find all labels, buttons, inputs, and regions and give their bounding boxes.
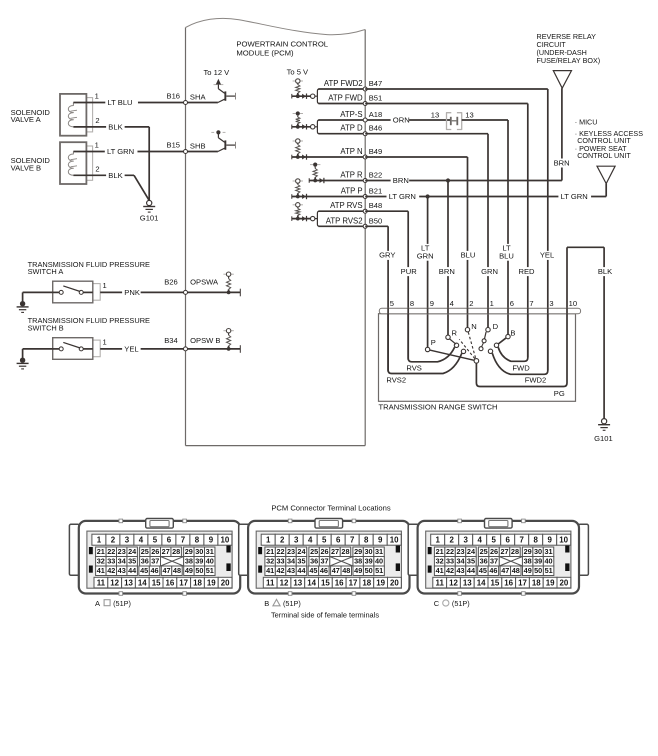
svg-text:27: 27 [162, 547, 170, 556]
svg-text:37: 37 [151, 557, 159, 566]
svg-text:11: 11 [266, 578, 275, 587]
svg-text:3: 3 [125, 536, 130, 545]
svg-text:LT GRN: LT GRN [561, 192, 588, 201]
svg-text:43: 43 [456, 566, 464, 575]
svg-text:14: 14 [138, 578, 147, 587]
svg-text:YEL: YEL [124, 345, 138, 354]
svg-text:8: 8 [410, 299, 414, 308]
svg-text:41: 41 [436, 566, 444, 575]
solenoid valve B connector bracket [86, 146, 92, 180]
range switch pin 10 stub [566, 308, 568, 314]
wire GRY ATP RVS2 B50 to range switch pin 5 [365, 226, 388, 371]
svg-text:6: 6 [506, 536, 511, 545]
svg-text:15: 15 [491, 578, 500, 587]
svg-text:PUR: PUR [401, 267, 418, 276]
RVS path pin 8 to rotor [406, 314, 458, 373]
svg-text:49: 49 [524, 566, 532, 575]
svg-text:RVS2: RVS2 [386, 375, 406, 384]
svg-text:MODULE (PCM): MODULE (PCM) [236, 49, 294, 58]
svg-text:ATP R: ATP R [340, 171, 363, 180]
svg-text:29: 29 [354, 547, 362, 556]
svg-text:2: 2 [95, 116, 99, 125]
range switch contact B [506, 329, 516, 339]
svg-text:VALVE B: VALVE B [11, 163, 42, 172]
solenoid valve B [60, 142, 86, 184]
svg-text:SWITCH B: SWITCH B [28, 323, 64, 332]
svg-text:B26: B26 [164, 278, 178, 287]
svg-text:LT GRN: LT GRN [389, 192, 416, 201]
svg-text:44: 44 [128, 566, 137, 575]
svg-text:47: 47 [162, 566, 170, 575]
svg-text:9: 9 [430, 299, 434, 308]
FWD path pin 7 to rotor [494, 314, 530, 373]
PCM signal name labels [324, 79, 363, 225]
svg-text:1: 1 [97, 536, 102, 545]
svg-text:19: 19 [207, 578, 216, 587]
svg-text:35: 35 [297, 557, 305, 566]
svg-text:5: 5 [492, 536, 497, 545]
valve A pin 1 [95, 92, 99, 101]
svg-text:24: 24 [467, 547, 476, 556]
svg-text:12: 12 [449, 578, 458, 587]
svg-text:15: 15 [321, 578, 330, 587]
svg-text:39: 39 [365, 557, 373, 566]
svg-text:40: 40 [545, 557, 553, 566]
svg-text:D: D [493, 322, 499, 331]
wire RED ATP FWD B51 to range switch pin 7 [365, 104, 528, 358]
svg-text:R: R [452, 329, 458, 338]
svg-text:47: 47 [332, 566, 340, 575]
svg-text:To 5 V: To 5 V [287, 67, 309, 76]
svg-text:(51P): (51P) [283, 599, 301, 608]
svg-text:10: 10 [559, 536, 568, 545]
svg-text:4: 4 [308, 536, 313, 545]
label To 5 V [287, 67, 309, 76]
resistor pull-up group ATP R [309, 163, 324, 184]
svg-text:25: 25 [141, 547, 149, 556]
bracket ATP-S/ATP D pair [311, 120, 391, 134]
range switch pin 7 stub [527, 308, 529, 314]
wiper dashed N to common [468, 332, 475, 358]
MICU keyless access power seat connector triangle [597, 166, 615, 183]
svg-text:28: 28 [172, 547, 180, 556]
wire OPSWA inside PCM [184, 289, 241, 297]
terminal B15 label [167, 141, 181, 150]
svg-text:PNK: PNK [124, 288, 140, 297]
svg-text:15: 15 [152, 578, 161, 587]
wiper arm P to common [430, 350, 475, 360]
svg-text:31: 31 [544, 547, 552, 556]
svg-text:26: 26 [321, 547, 329, 556]
svg-text:B: B [510, 329, 515, 338]
svg-text:20: 20 [560, 578, 569, 587]
svg-text:1: 1 [103, 337, 107, 346]
svg-text:8: 8 [195, 536, 200, 545]
svg-text:43: 43 [287, 566, 295, 575]
svg-text:18: 18 [362, 578, 371, 587]
svg-text:16: 16 [335, 578, 344, 587]
wiper dashed common to R side [459, 339, 475, 358]
wire BLK valve B pin2 to G101 [73, 171, 149, 201]
svg-text:22: 22 [107, 547, 115, 556]
svg-text:B15: B15 [167, 141, 181, 150]
svg-text:ATP P: ATP P [341, 187, 363, 196]
svg-text:Terminal side of female termin: Terminal side of female terminals [271, 611, 379, 620]
svg-text:1: 1 [95, 92, 99, 101]
resistor pull-up group ATP P [292, 179, 311, 199]
PCM connector C 51P [408, 519, 588, 609]
svg-text:7: 7 [520, 536, 525, 545]
range switch contact P [425, 338, 435, 351]
svg-text:20: 20 [221, 578, 230, 587]
svg-text:33: 33 [107, 557, 115, 566]
RVS2 path pin 5 to rotor [386, 314, 465, 385]
svg-text:RED: RED [518, 267, 535, 276]
svg-text:46: 46 [489, 566, 497, 575]
range switch pin 6 stub [507, 308, 509, 314]
svg-text:BLK: BLK [108, 123, 122, 132]
svg-text:31: 31 [206, 547, 214, 556]
svg-text:6: 6 [510, 299, 514, 308]
svg-text:48: 48 [512, 566, 520, 575]
svg-text:GRY: GRY [379, 251, 395, 260]
svg-text:45: 45 [140, 566, 148, 575]
svg-text:B51: B51 [369, 94, 383, 103]
svg-text:N: N [471, 322, 476, 331]
svg-text:37: 37 [321, 557, 329, 566]
svg-text:ATP N: ATP N [340, 147, 362, 156]
svg-text:PCM Connector Terminal Locatio: PCM Connector Terminal Locations [271, 504, 391, 513]
svg-text:25: 25 [310, 547, 318, 556]
svg-text:PG: PG [554, 389, 565, 398]
svg-text:26: 26 [151, 547, 159, 556]
svg-text:33: 33 [277, 557, 285, 566]
svg-text:34: 34 [456, 557, 465, 566]
svg-text:To 12 V: To 12 V [204, 68, 231, 77]
svg-text:FUSE/RELAY BOX): FUSE/RELAY BOX) [537, 56, 601, 65]
svg-text:43: 43 [118, 566, 126, 575]
svg-text:RVS: RVS [406, 363, 421, 372]
svg-text:11: 11 [436, 578, 445, 587]
svg-text:BLK: BLK [598, 267, 612, 276]
svg-text:19: 19 [376, 578, 385, 587]
wire PNK switch A to PCM B26 [100, 288, 185, 297]
svg-text:24: 24 [297, 547, 306, 556]
svg-text:6: 6 [336, 536, 341, 545]
svg-text:SHA: SHA [190, 92, 207, 101]
svg-text:25: 25 [480, 547, 488, 556]
svg-text:ATP RVS: ATP RVS [330, 201, 363, 210]
label REVERSE RELAY CIRCUIT [537, 32, 601, 65]
FWD2 path pin 3 to rotor [488, 314, 548, 385]
svg-text:22: 22 [277, 547, 285, 556]
label SHB [190, 141, 206, 150]
svg-text:B16: B16 [167, 92, 181, 101]
svg-text:1: 1 [490, 299, 494, 308]
svg-text:FWD: FWD [512, 364, 530, 373]
svg-text:B47: B47 [369, 79, 383, 88]
svg-text:5: 5 [390, 299, 394, 308]
svg-text:3: 3 [464, 536, 469, 545]
reverse relay circuit connector triangle [553, 71, 571, 89]
terminal B26 label [164, 278, 178, 287]
wire ORN ATP-S A18 to in-line connector [390, 116, 451, 125]
svg-text:20: 20 [390, 578, 399, 587]
svg-text:38: 38 [354, 557, 362, 566]
wire LT BLU in-line connector to range switch pin 6 [462, 120, 508, 334]
svg-text:45: 45 [309, 566, 317, 575]
svg-text:2: 2 [95, 164, 99, 173]
svg-text:28: 28 [341, 547, 349, 556]
wire YEL ATP FWD2 B47 to range switch pin 3 [365, 89, 548, 370]
svg-text:12: 12 [280, 578, 289, 587]
range switch pin 8 stub [407, 308, 409, 314]
solenoid valve B coil L2 [68, 152, 77, 176]
transmission fluid pressure switch B bracket [93, 340, 100, 357]
svg-text:30: 30 [534, 547, 542, 556]
svg-text:13: 13 [465, 111, 473, 120]
solenoid valve A coil L1 [68, 103, 77, 127]
svg-text:8: 8 [364, 536, 369, 545]
svg-text:42: 42 [107, 566, 115, 575]
bracket ATP RVS/ATP RVS2 pair [311, 211, 366, 226]
label Terminal side of female terminals [271, 611, 379, 620]
chassis ground switch B [17, 349, 53, 369]
wire LT GRN valve B pin1 to PCM B15 [73, 147, 185, 156]
powertrain control module PCM box [186, 18, 366, 445]
svg-text:45: 45 [479, 566, 487, 575]
svg-text:49: 49 [354, 566, 362, 575]
svg-text:40: 40 [375, 557, 383, 566]
svg-text:4: 4 [450, 299, 454, 308]
svg-text:42: 42 [446, 566, 454, 575]
svg-text:B46: B46 [369, 124, 383, 133]
wire YEL switch B to PCM B34 [100, 345, 185, 354]
svg-text:14: 14 [477, 578, 486, 587]
svg-text:B49: B49 [369, 147, 383, 156]
svg-text:BRN: BRN [393, 176, 409, 185]
resistor pull-up group ATP RVS/ATP RVS2 [292, 203, 311, 222]
svg-text:21: 21 [266, 547, 274, 556]
svg-text:36: 36 [141, 557, 149, 566]
svg-text:48: 48 [342, 566, 350, 575]
resistor pull-up group ATP FWD2/ATP FWD [292, 79, 311, 99]
svg-text:1: 1 [266, 536, 271, 545]
svg-text:21: 21 [436, 547, 444, 556]
PCM right edge connector circles [363, 87, 367, 228]
svg-text:B22: B22 [369, 171, 383, 180]
resistor pull-up group ATP N [292, 139, 311, 160]
label OPSWA [190, 278, 219, 287]
label SOLENOID VALVE A [11, 108, 51, 124]
svg-text:C: C [434, 599, 440, 608]
svg-text:50: 50 [534, 566, 542, 575]
svg-text:28: 28 [511, 547, 519, 556]
range switch pin 2 stub [467, 308, 469, 314]
wire color labels at range switch [379, 244, 614, 276]
svg-text:47: 47 [501, 566, 509, 575]
svg-text:ATP-S: ATP-S [340, 110, 362, 119]
svg-text:· MICU: · MICU [575, 118, 598, 127]
svg-text:B34: B34 [164, 336, 178, 345]
in-line connector H [447, 113, 462, 130]
label TRANSMISSION FLUID PRESSURE SWITCH B [28, 316, 150, 332]
wire ATP N row [311, 156, 366, 158]
svg-text:13: 13 [431, 111, 439, 120]
range switch contact N [465, 322, 476, 332]
svg-text:10: 10 [390, 536, 399, 545]
ground G101 right [594, 419, 613, 443]
svg-text:12: 12 [110, 578, 119, 587]
svg-text:1: 1 [436, 536, 441, 545]
svg-text:41: 41 [266, 566, 274, 575]
svg-text:SHB: SHB [190, 141, 206, 150]
svg-text:38: 38 [185, 557, 193, 566]
svg-text:9: 9 [209, 536, 214, 545]
svg-text:LT BLU: LT BLU [108, 98, 133, 107]
svg-text:16: 16 [504, 578, 513, 587]
solenoid valve A [60, 94, 86, 136]
transmission fluid pressure switch A bracket [93, 284, 100, 301]
svg-text:YEL: YEL [540, 251, 554, 260]
svg-text:48: 48 [173, 566, 181, 575]
svg-text:10: 10 [569, 299, 577, 308]
svg-text:51: 51 [545, 566, 553, 575]
wire SHB inside PCM [184, 150, 218, 154]
svg-text:27: 27 [500, 547, 508, 556]
wire ATP R row [311, 180, 366, 182]
svg-text:39: 39 [534, 557, 542, 566]
svg-text:21: 21 [97, 547, 105, 556]
svg-text:(51P): (51P) [113, 599, 131, 608]
svg-text:9: 9 [548, 536, 553, 545]
wire PUR ATP RVS B48 to range switch pin 8 [365, 211, 408, 360]
svg-text:7: 7 [529, 299, 533, 308]
svg-text:23: 23 [118, 547, 126, 556]
svg-text:ATP D: ATP D [340, 124, 363, 133]
svg-text:51: 51 [206, 566, 214, 575]
solenoid valve A connector bracket [86, 98, 92, 132]
svg-text:39: 39 [195, 557, 203, 566]
svg-text:B21: B21 [369, 187, 383, 196]
wire LT BLU valve A pin1 to PCM B16 [73, 98, 185, 107]
svg-text:POWERTRAIN CONTROL: POWERTRAIN CONTROL [236, 39, 328, 48]
range switch pin 1 stub [487, 308, 489, 314]
svg-text:3: 3 [549, 299, 553, 308]
svg-text:13: 13 [293, 578, 302, 587]
svg-text:A18: A18 [369, 110, 383, 119]
svg-text:13: 13 [124, 578, 133, 587]
svg-text:27: 27 [331, 547, 339, 556]
resistor R-OPSWA pull-up [223, 272, 233, 294]
svg-text:8: 8 [534, 536, 539, 545]
svg-text:33: 33 [446, 557, 454, 566]
switch A pin 1 [103, 281, 107, 290]
svg-text:G101: G101 [140, 213, 159, 222]
svg-text:9: 9 [378, 536, 383, 545]
svg-text:2: 2 [469, 299, 473, 308]
wire BLK range switch pin 10 to G101 [567, 247, 604, 419]
svg-text:30: 30 [365, 547, 373, 556]
svg-text:B: B [264, 599, 269, 608]
svg-text:BRN: BRN [439, 267, 455, 276]
range switch pin numbers [390, 299, 577, 308]
svg-text:LT GRN: LT GRN [107, 147, 134, 156]
chassis ground switch A [17, 292, 53, 312]
svg-text:40: 40 [206, 557, 214, 566]
svg-text:36: 36 [310, 557, 318, 566]
label SHA [190, 92, 207, 101]
svg-text:23: 23 [456, 547, 464, 556]
terminal B34 label [164, 336, 178, 345]
svg-text:50: 50 [365, 566, 373, 575]
svg-text:32: 32 [436, 557, 444, 566]
wire BLU ATP N B49 to range switch pin 2 [365, 157, 467, 328]
svg-text:G101: G101 [594, 434, 613, 443]
svg-text:2: 2 [450, 536, 455, 545]
svg-text:6: 6 [167, 536, 172, 545]
svg-text:23: 23 [287, 547, 295, 556]
svg-text:CONTROL UNIT: CONTROL UNIT [577, 151, 631, 160]
svg-text:1: 1 [95, 141, 99, 150]
range switch contact D [486, 322, 499, 332]
svg-text:1: 1 [103, 281, 107, 290]
valve B pin 1 [95, 141, 99, 150]
transmission range switch box [379, 314, 576, 402]
svg-text:44: 44 [467, 566, 476, 575]
range switch pin 4 stub [447, 308, 449, 314]
svg-text:B50: B50 [369, 216, 383, 225]
PG path common to pin 10 [476, 314, 567, 398]
valve B pin 2 [95, 164, 99, 173]
PCM connector A 51P [69, 519, 249, 609]
rotor contact links [450, 332, 506, 351]
wire OPSW B inside PCM [184, 345, 241, 353]
svg-text:17: 17 [179, 578, 188, 587]
svg-text:22: 22 [446, 547, 454, 556]
wire BRN ATP R B22 to reverse relay and range switch pin 4 [365, 88, 570, 335]
bracket ATP FWD2/ATP FWD pair [311, 89, 366, 104]
svg-text:10: 10 [221, 536, 230, 545]
range switch pin 5 stub [387, 308, 389, 314]
transmission fluid pressure switch A [53, 281, 93, 303]
terminal B16 label [167, 92, 181, 101]
svg-text:11: 11 [97, 578, 106, 587]
svg-text:BRN: BRN [554, 158, 570, 167]
svg-text:18: 18 [193, 578, 202, 587]
resistor pull-up group ATP-S/ATP D [292, 111, 311, 129]
wire BLK valve A pin2 to G101 [73, 123, 149, 201]
svg-text:17: 17 [349, 578, 358, 587]
svg-text:VALVE A: VALVE A [11, 115, 42, 124]
svg-text:29: 29 [524, 547, 532, 556]
wire LT GRN ATP P B21 to MICU and range switch pin 9 [365, 184, 606, 348]
svg-text:BLU: BLU [461, 251, 476, 260]
svg-text:32: 32 [266, 557, 274, 566]
svg-text:35: 35 [128, 557, 136, 566]
svg-text:17: 17 [518, 578, 527, 587]
svg-text:TRANSMISSION RANGE SWITCH: TRANSMISSION RANGE SWITCH [379, 402, 498, 411]
svg-text:B48: B48 [369, 201, 383, 210]
svg-text:2: 2 [280, 536, 285, 545]
svg-text:19: 19 [546, 578, 555, 587]
svg-text:OPSW B: OPSW B [190, 336, 220, 345]
svg-text:3: 3 [294, 536, 299, 545]
svg-text:38: 38 [524, 557, 532, 566]
svg-text:37: 37 [490, 557, 498, 566]
svg-text:A: A [95, 599, 100, 608]
svg-text:44: 44 [297, 566, 306, 575]
